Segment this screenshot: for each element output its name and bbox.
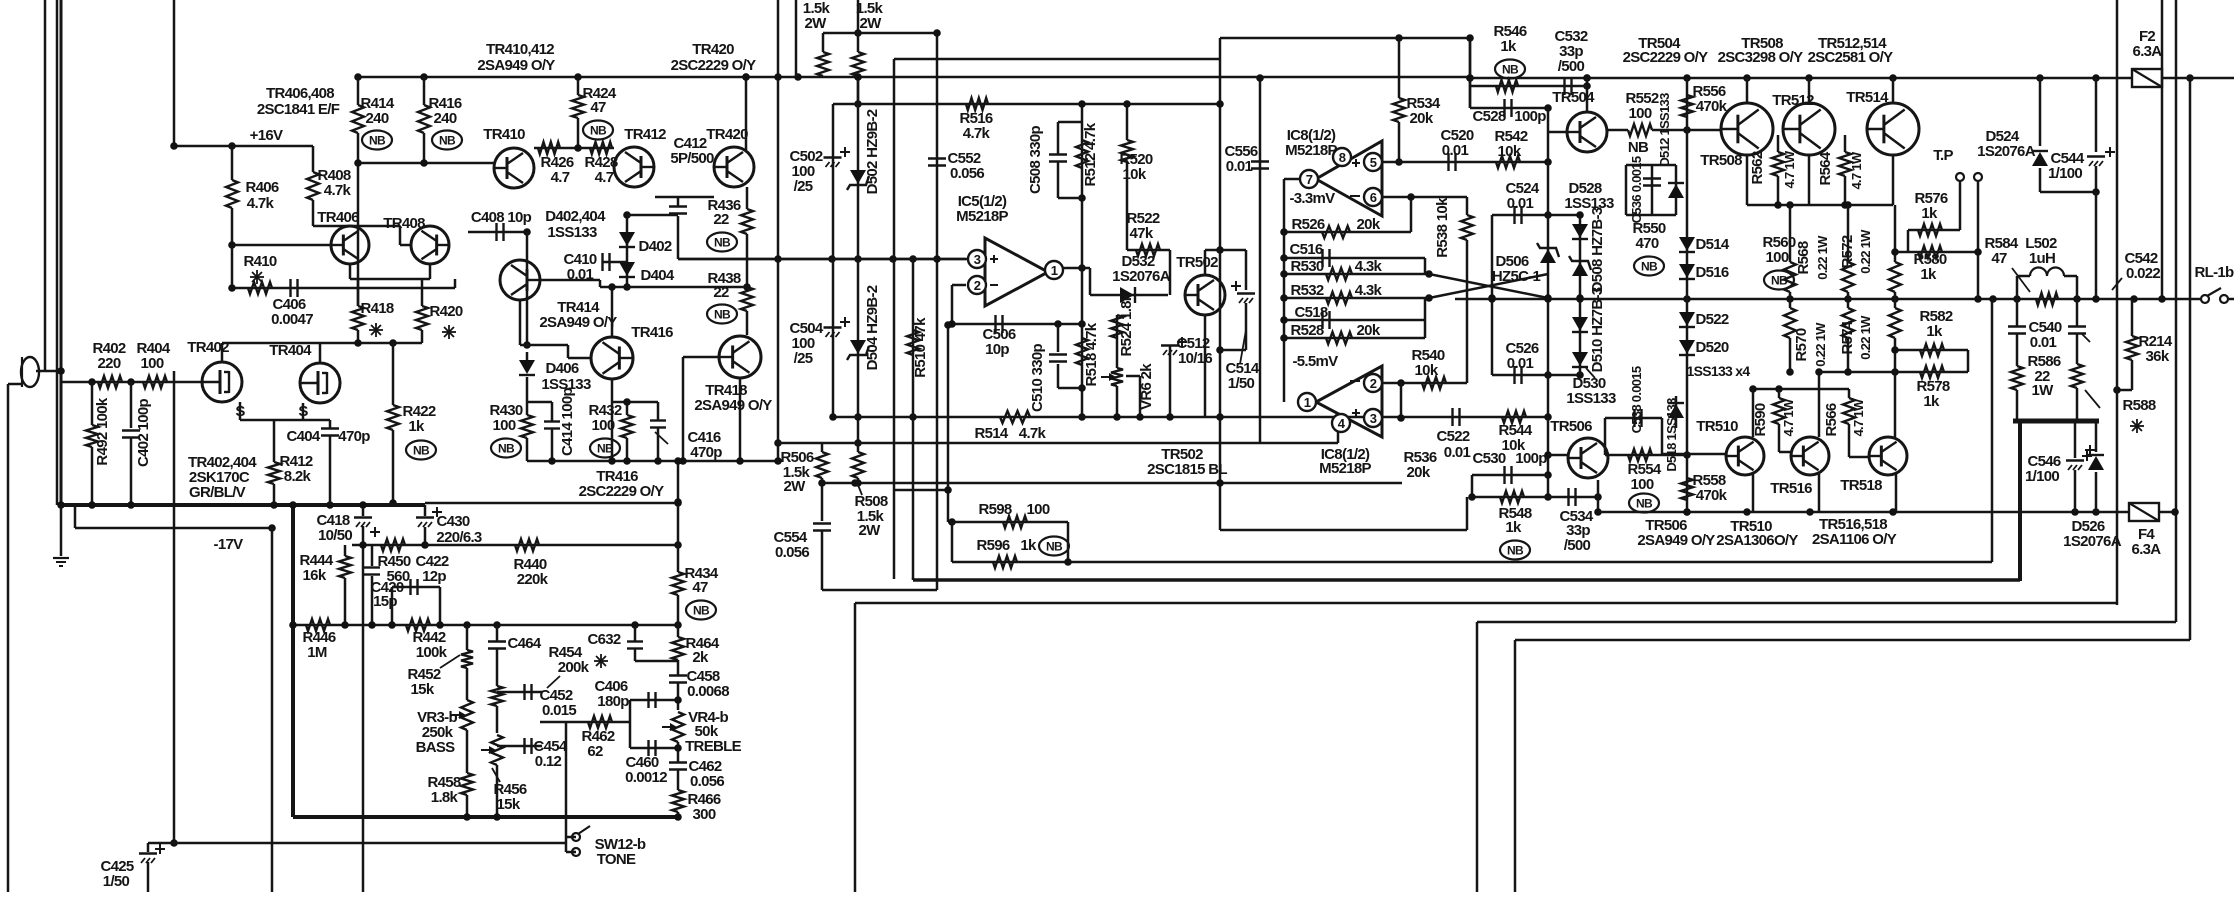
svg-text:470k: 470k: [1696, 487, 1728, 504]
svg-text:2SC2229 O/Y: 2SC2229 O/Y: [671, 57, 757, 74]
svg-text:NB: NB: [597, 442, 614, 456]
svg-text:1S2076A: 1S2076A: [1112, 268, 1171, 285]
svg-text:1/100: 1/100: [2048, 165, 2082, 182]
svg-text:NB: NB: [714, 236, 731, 250]
svg-text:20k: 20k: [1357, 216, 1381, 233]
svg-text:NB: NB: [1502, 63, 1519, 77]
svg-text:2SA949 O/Y: 2SA949 O/Y: [539, 314, 617, 331]
svg-text:M5218P: M5218P: [956, 208, 1008, 225]
svg-text:/25: /25: [794, 350, 813, 367]
svg-text:0.01: 0.01: [1226, 158, 1253, 175]
svg-text:0.22 1W: 0.22 1W: [1813, 322, 1828, 367]
svg-text:C538 0.0015: C538 0.0015: [1629, 366, 1644, 433]
svg-text:8: 8: [1339, 150, 1346, 165]
svg-text:2: 2: [974, 278, 981, 293]
svg-text:2SA949 O/Y: 2SA949 O/Y: [694, 397, 772, 414]
svg-text:D406: D406: [545, 360, 578, 377]
svg-text:2: 2: [1370, 376, 1377, 391]
svg-text:1S2076A: 1S2076A: [1977, 143, 2036, 160]
svg-text:TR504: TR504: [1552, 89, 1595, 106]
svg-text:15k: 15k: [497, 796, 521, 813]
svg-text:100: 100: [493, 417, 516, 434]
svg-text:4.7k: 4.7k: [324, 182, 352, 199]
svg-text:10k: 10k: [1498, 143, 1522, 160]
svg-text:TR410,412: TR410,412: [486, 41, 554, 58]
svg-text:TR410: TR410: [483, 126, 525, 143]
svg-text:R596: R596: [976, 537, 1009, 554]
svg-text:47: 47: [1991, 250, 2007, 267]
svg-text:1/100: 1/100: [2025, 468, 2059, 485]
svg-text:1SS133: 1SS133: [547, 224, 597, 241]
svg-text:NB: NB: [1628, 139, 1649, 156]
svg-text:1k: 1k: [1020, 537, 1037, 554]
svg-text:0.0047: 0.0047: [271, 311, 313, 328]
svg-text:D510 HZ7B-3: D510 HZ7B-3: [1589, 287, 1606, 372]
svg-text:R518 4.7k: R518 4.7k: [1083, 322, 1100, 386]
svg-text:2SC2581 O/Y: 2SC2581 O/Y: [1808, 49, 1894, 66]
svg-text:C404: C404: [286, 428, 320, 445]
svg-text:0.056: 0.056: [690, 773, 724, 790]
svg-text:47k: 47k: [1130, 225, 1154, 242]
svg-text:NB: NB: [498, 442, 515, 456]
svg-text:/500: /500: [1564, 537, 1591, 554]
svg-text:TR516: TR516: [1770, 480, 1812, 497]
svg-text:R568: R568: [1795, 241, 1812, 274]
svg-text:R512 4.7k: R512 4.7k: [1082, 122, 1099, 186]
svg-text:47: 47: [692, 579, 708, 596]
svg-text:15k: 15k: [411, 681, 435, 698]
svg-text:R570: R570: [1793, 328, 1810, 361]
svg-text:1/50: 1/50: [1228, 375, 1255, 392]
svg-text:R530: R530: [1290, 258, 1323, 275]
svg-text:4.7: 4.7: [595, 169, 614, 186]
svg-text:D508 HZ7B-3: D508 HZ7B-3: [1589, 207, 1606, 292]
svg-text:C464: C464: [507, 635, 541, 652]
svg-text:7: 7: [1306, 172, 1313, 187]
svg-text:470p: 470p: [690, 444, 722, 461]
svg-text:TREBLE: TREBLE: [685, 738, 741, 755]
svg-text:2k: 2k: [692, 649, 709, 666]
svg-text:10/50: 10/50: [318, 527, 352, 544]
svg-text:C522: C522: [1436, 428, 1469, 445]
svg-text:0.22 1W: 0.22 1W: [1858, 315, 1873, 360]
svg-text:1k: 1k: [1921, 205, 1938, 222]
svg-text:20k: 20k: [1407, 464, 1431, 481]
svg-text:R564: R564: [1817, 151, 1834, 185]
svg-text:16k: 16k: [303, 567, 327, 584]
svg-text:10p: 10p: [985, 341, 1009, 358]
svg-text:0.0012: 0.0012: [625, 769, 667, 786]
svg-text:1SS133: 1SS133: [1566, 390, 1616, 407]
svg-text:C632: C632: [587, 631, 620, 648]
svg-text:C430: C430: [436, 513, 469, 530]
svg-text:36k: 36k: [2146, 348, 2170, 365]
svg-text:2SA949 O/Y: 2SA949 O/Y: [477, 57, 555, 74]
svg-text:-5.5mV: -5.5mV: [1293, 353, 1339, 370]
svg-text:+16V: +16V: [250, 127, 283, 144]
svg-text:10/16: 10/16: [1178, 350, 1212, 367]
svg-text:0.01: 0.01: [1507, 355, 1534, 372]
svg-text:R588: R588: [2122, 397, 2155, 414]
svg-text:4.7: 4.7: [551, 169, 570, 186]
svg-text:0.015: 0.015: [542, 702, 576, 719]
svg-text:62: 62: [587, 743, 603, 760]
svg-text:TR420: TR420: [692, 41, 734, 58]
svg-text:TR514: TR514: [1846, 89, 1889, 106]
svg-text:TR402: TR402: [187, 339, 229, 356]
svg-text:6.3A: 6.3A: [2133, 43, 2163, 60]
svg-text:2SC1841 E/F: 2SC1841 E/F: [257, 101, 340, 118]
svg-text:TR420: TR420: [706, 126, 748, 143]
svg-text:1k: 1k: [1505, 519, 1522, 536]
svg-text:12p: 12p: [422, 568, 446, 585]
svg-text:4.7 1W: 4.7 1W: [1782, 150, 1797, 188]
svg-text:R510 47k: R510 47k: [912, 317, 929, 378]
svg-text:0.01: 0.01: [1442, 142, 1469, 159]
svg-text:1k: 1k: [1500, 38, 1517, 55]
svg-text:R492 100k: R492 100k: [94, 397, 111, 465]
svg-text:D514: D514: [1695, 236, 1729, 253]
svg-text:0.01: 0.01: [567, 266, 594, 283]
svg-text:D402: D402: [638, 238, 671, 255]
svg-text:TR404: TR404: [269, 342, 312, 359]
svg-text:-3.3mV: -3.3mV: [1290, 190, 1336, 207]
svg-text:NB: NB: [590, 124, 607, 138]
svg-text:R514: R514: [974, 425, 1008, 442]
svg-text:22: 22: [713, 211, 729, 228]
svg-text:2SC3298 O/Y: 2SC3298 O/Y: [1718, 49, 1804, 66]
svg-text:1k: 1k: [1923, 393, 1940, 410]
svg-text:TONE: TONE: [597, 851, 636, 868]
svg-text:0.22 1W: 0.22 1W: [1815, 235, 1830, 280]
svg-text:R590: R590: [1752, 403, 1769, 436]
svg-text:R532: R532: [1290, 282, 1323, 299]
svg-text:10k: 10k: [1415, 362, 1439, 379]
svg-text:180p: 180p: [597, 693, 629, 710]
svg-text:1k: 1k: [408, 418, 425, 435]
svg-text:0.022: 0.022: [2126, 265, 2160, 282]
svg-text:2SA1306O/Y: 2SA1306O/Y: [1716, 532, 1798, 549]
svg-text:NB: NB: [1507, 544, 1524, 558]
svg-text:R562: R562: [1749, 151, 1766, 184]
svg-text:HZ5C-1: HZ5C-1: [1492, 268, 1541, 285]
svg-text:0.0068: 0.0068: [687, 683, 729, 700]
svg-text:2SA949 O/Y: 2SA949 O/Y: [1637, 532, 1715, 549]
svg-text:3: 3: [1370, 411, 1377, 426]
svg-text:6.3A: 6.3A: [2132, 541, 2162, 558]
svg-text:4.7 1W: 4.7 1W: [1781, 398, 1796, 436]
svg-text:D522: D522: [1695, 311, 1728, 328]
svg-text:1/50: 1/50: [103, 873, 130, 890]
svg-text:TR408: TR408: [383, 215, 425, 232]
svg-text:100: 100: [1631, 476, 1654, 493]
svg-text:S: S: [235, 403, 245, 420]
svg-text:R574: R574: [1839, 320, 1856, 354]
svg-text:1M: 1M: [307, 644, 327, 661]
svg-text:0.12: 0.12: [535, 753, 562, 770]
svg-text:C518: C518: [1294, 304, 1327, 321]
svg-text:TR406: TR406: [317, 209, 359, 226]
svg-text:22: 22: [713, 284, 729, 301]
svg-text:R526: R526: [1291, 216, 1324, 233]
svg-text:240: 240: [366, 110, 389, 127]
svg-text:TR508: TR508: [1700, 152, 1742, 169]
svg-text:470p: 470p: [338, 428, 370, 445]
svg-text:/25: /25: [794, 178, 813, 195]
svg-text:D402,404: D402,404: [545, 208, 606, 225]
svg-text:R406: R406: [245, 179, 278, 196]
svg-text:5P/500: 5P/500: [670, 150, 714, 167]
svg-text:100p: 100p: [1514, 108, 1546, 125]
svg-text:M5218P: M5218P: [1285, 142, 1337, 159]
svg-text:T.P: T.P: [1933, 147, 1953, 164]
svg-text:D518 1SS133: D518 1SS133: [1664, 398, 1679, 472]
svg-text:220/6.3: 220/6.3: [436, 529, 482, 546]
svg-text:220k: 220k: [517, 571, 549, 588]
svg-text:4.7 1W: 4.7 1W: [1849, 151, 1864, 189]
svg-text:1uH: 1uH: [2029, 250, 2055, 267]
svg-text:D512 1SS133: D512 1SS133: [1657, 93, 1672, 167]
svg-text:D502 HZ9B-2: D502 HZ9B-2: [864, 109, 881, 194]
svg-text:VR6 2k: VR6 2k: [1138, 363, 1155, 410]
svg-text:100: 100: [141, 355, 164, 372]
svg-text:1W: 1W: [2031, 382, 2054, 399]
svg-text:R410: R410: [243, 253, 276, 270]
svg-text:D516: D516: [1695, 264, 1728, 281]
svg-text:C508 330p: C508 330p: [1027, 126, 1044, 194]
svg-text:TR510: TR510: [1696, 418, 1738, 435]
svg-text:220: 220: [98, 355, 121, 372]
svg-text:240: 240: [434, 110, 457, 127]
svg-text:TR412: TR412: [624, 126, 666, 143]
svg-text:R420: R420: [429, 303, 462, 320]
svg-text:2SC2229 O/Y: 2SC2229 O/Y: [579, 483, 665, 500]
svg-text:NB: NB: [714, 308, 731, 322]
svg-text:3: 3: [974, 252, 981, 267]
svg-text:10k: 10k: [1123, 166, 1147, 183]
svg-text:NB: NB: [1636, 497, 1653, 511]
svg-text:1k: 1k: [1920, 266, 1937, 283]
svg-text:S: S: [298, 403, 308, 420]
svg-text:NB: NB: [1046, 540, 1063, 554]
svg-text:200k: 200k: [558, 659, 590, 676]
svg-text:470k: 470k: [1696, 98, 1728, 115]
svg-text:/500: /500: [1558, 58, 1585, 75]
svg-text:R572: R572: [1839, 235, 1856, 268]
svg-text:0.22 1W: 0.22 1W: [1858, 229, 1873, 274]
svg-text:1S2076A: 1S2076A: [2063, 533, 2122, 550]
svg-text:1: 1: [1051, 263, 1058, 278]
svg-text:2W: 2W: [783, 478, 806, 495]
svg-text:D404: D404: [640, 267, 674, 284]
svg-text:4.7k: 4.7k: [1019, 425, 1047, 442]
svg-text:100: 100: [592, 417, 615, 434]
svg-text:NB: NB: [1771, 274, 1788, 288]
svg-text:4.7 1W: 4.7 1W: [1851, 398, 1866, 436]
svg-text:TR518: TR518: [1840, 477, 1882, 494]
svg-text:4.7k: 4.7k: [247, 195, 275, 212]
svg-text:1.8k: 1.8k: [431, 789, 459, 806]
svg-text:4.3k: 4.3k: [1355, 282, 1383, 299]
svg-text:1: 1: [1304, 395, 1311, 410]
svg-text:6: 6: [1370, 190, 1377, 205]
svg-text:47: 47: [590, 99, 606, 116]
svg-text:NB: NB: [369, 134, 386, 148]
svg-text:100: 100: [1766, 249, 1789, 266]
svg-text:R566: R566: [1823, 403, 1840, 436]
svg-text:0.056: 0.056: [950, 165, 984, 182]
svg-text:R538 10k: R538 10k: [1434, 197, 1451, 258]
svg-text:100: 100: [1629, 105, 1652, 122]
svg-text:2SC2229 O/Y: 2SC2229 O/Y: [1623, 49, 1709, 66]
svg-text:10k: 10k: [1502, 437, 1526, 454]
svg-text:R528: R528: [1290, 322, 1323, 339]
svg-text:C516: C516: [1289, 241, 1322, 258]
svg-text:100k: 100k: [416, 644, 448, 661]
svg-text:1k: 1k: [1926, 323, 1943, 340]
svg-text:2W: 2W: [858, 522, 881, 539]
svg-text:4.7k: 4.7k: [963, 125, 991, 142]
svg-text:2W: 2W: [804, 15, 827, 32]
svg-text:GR/BL/V: GR/BL/V: [189, 484, 246, 501]
svg-text:TR512: TR512: [1772, 92, 1814, 109]
svg-text:D504 HZ9B-2: D504 HZ9B-2: [864, 285, 881, 370]
svg-text:TR416: TR416: [631, 324, 673, 341]
svg-text:R418: R418: [360, 300, 393, 317]
svg-text:RL-1b: RL-1b: [2195, 264, 2234, 281]
svg-text:-17V: -17V: [214, 536, 244, 553]
svg-text:0.01: 0.01: [2030, 334, 2057, 351]
svg-text:TR406,408: TR406,408: [266, 85, 334, 102]
svg-text:20k: 20k: [1410, 110, 1434, 127]
svg-text:C402 100p: C402 100p: [135, 399, 152, 467]
svg-text:NB: NB: [439, 134, 456, 148]
svg-text:NB: NB: [1641, 260, 1658, 274]
svg-text:C528: C528: [1472, 108, 1505, 125]
svg-text:M5218P: M5218P: [1319, 460, 1371, 477]
svg-text:8.2k: 8.2k: [284, 468, 312, 485]
svg-text:5: 5: [1370, 155, 1377, 170]
svg-text:20k: 20k: [1357, 322, 1381, 339]
svg-text:C536 0.0015: C536 0.0015: [1629, 156, 1644, 223]
svg-text:TR502: TR502: [1176, 254, 1218, 271]
svg-text:NB: NB: [693, 604, 710, 618]
svg-text:2W: 2W: [859, 15, 882, 32]
svg-text:D520: D520: [1695, 339, 1728, 356]
svg-text:0.01: 0.01: [1444, 444, 1471, 461]
svg-text:BASS: BASS: [416, 739, 456, 756]
svg-text:100: 100: [1027, 501, 1050, 518]
svg-text:2SC1815 BL: 2SC1815 BL: [1147, 461, 1227, 478]
svg-text:R524 1.8k: R524 1.8k: [1118, 292, 1135, 356]
svg-text:470: 470: [1636, 235, 1659, 252]
svg-text:C510 330p: C510 330p: [1029, 344, 1046, 412]
svg-text:NB: NB: [413, 444, 430, 458]
svg-text:15p: 15p: [373, 593, 397, 610]
svg-text:1SS133 x4: 1SS133 x4: [1687, 363, 1751, 379]
svg-text:0.01: 0.01: [1507, 195, 1534, 212]
svg-text:TR506: TR506: [1550, 418, 1592, 435]
svg-text:C414 100p: C414 100p: [559, 388, 576, 456]
svg-text:R598: R598: [978, 501, 1011, 518]
svg-text:300: 300: [693, 806, 716, 823]
svg-text:4.3k: 4.3k: [1355, 258, 1383, 275]
svg-text:0.056: 0.056: [775, 544, 809, 561]
svg-text:C408 10p: C408 10p: [471, 209, 532, 226]
svg-text:2SA1106 O/Y: 2SA1106 O/Y: [1812, 531, 1897, 548]
